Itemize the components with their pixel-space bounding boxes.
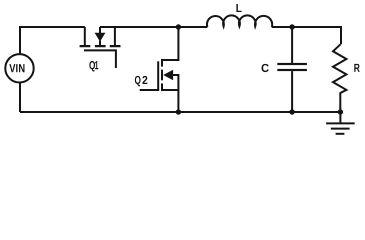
capacitor C bottom lead	[291, 71, 293, 112]
wire bottom rail	[20, 111, 340, 113]
resistor R zigzag	[333, 44, 346, 112]
Q1 source pad	[80, 45, 91, 47]
Q1 body arrow	[95, 33, 106, 42]
junction dot bottom rail at R / ground	[338, 109, 343, 114]
transistor Q2 gate lead	[140, 89, 160, 91]
junction dot top rail at C	[289, 24, 294, 29]
ground bar 3	[336, 133, 345, 135]
wire VIN bottom lead	[19, 82, 21, 112]
wire top rail from Q1 body to resistor corner	[100, 26, 207, 28]
wire inductor to resistor corner	[272, 27, 341, 44]
label C	[261, 64, 268, 72]
Q1 drain pad	[110, 45, 121, 47]
ground stem	[339, 112, 341, 123]
label Q2	[135, 76, 141, 86]
junction dot top rail at Q2 drain	[176, 24, 181, 29]
transistor Q2 source stub	[162, 89, 178, 91]
transistor Q1 gate line and gate lead	[84, 50, 116, 68]
transistor Q1 source lead	[84, 27, 86, 45]
transistor Q1 body arrow stem	[99, 41, 101, 46]
capacitor C top plate	[277, 63, 307, 65]
source VIN circle	[5, 54, 33, 82]
transistor Q2 channel body segment	[161, 70, 163, 81]
transistor Q2 drain stub and riser to top rail	[162, 27, 178, 60]
transistor Q1 drain lead	[114, 27, 116, 45]
transistor Q1 body lead	[99, 27, 101, 33]
inductor L	[207, 15, 272, 27]
junction dot bottom rail at C	[289, 109, 294, 114]
wire VIN top lead and top rail left segment	[20, 27, 85, 54]
ground bar 2	[331, 128, 350, 130]
ground bar 1	[326, 122, 355, 124]
junction dot bottom rail at Q2 source	[176, 109, 181, 114]
capacitor C bottom plate	[277, 69, 307, 71]
transistor Q2 channel source segment	[161, 83, 163, 91]
label L	[236, 4, 241, 12]
capacitor C top lead	[291, 27, 293, 63]
label VIN	[9, 64, 15, 72]
transistor Q2 channel drain segment	[161, 59, 163, 67]
label Q1	[89, 61, 95, 71]
transistor Q2 gate plate	[157, 61, 159, 90]
Q2 body arrow	[163, 70, 173, 80]
transistor Q2 body stub and drop to bottom rail	[173, 75, 179, 112]
Q1 body pad	[95, 45, 106, 47]
label R	[354, 64, 359, 72]
